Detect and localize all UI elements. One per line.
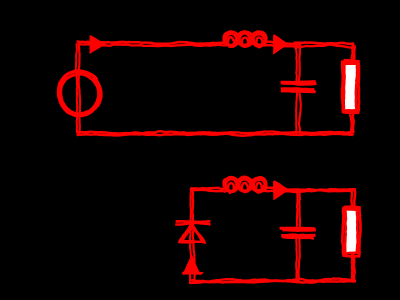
wire xyxy=(352,45,356,64)
wire xyxy=(297,189,300,229)
wire xyxy=(349,110,354,134)
inductor L2 xyxy=(224,177,267,194)
current arrow xyxy=(90,36,104,53)
wire xyxy=(262,187,300,192)
diode D1 xyxy=(175,221,210,242)
wire xyxy=(296,237,300,283)
wire xyxy=(76,42,80,135)
wire xyxy=(352,253,355,282)
source V1 xyxy=(59,71,102,116)
wire xyxy=(262,41,301,46)
wire xyxy=(293,43,355,48)
resistor R1 xyxy=(342,60,359,113)
current arrow xyxy=(274,35,288,52)
wire xyxy=(296,43,301,83)
wire xyxy=(296,91,301,134)
capacitor C1 xyxy=(281,82,317,93)
wire xyxy=(191,278,356,283)
wire xyxy=(190,188,195,284)
current arrow xyxy=(274,181,288,199)
resistor R2 xyxy=(342,207,360,257)
inductor L1 xyxy=(224,31,267,47)
current arrow xyxy=(182,256,203,274)
wire xyxy=(77,42,229,47)
wire xyxy=(77,131,355,136)
wire xyxy=(351,188,355,210)
capacitor C2 xyxy=(280,228,316,238)
wire xyxy=(190,188,228,192)
wire xyxy=(295,189,354,192)
